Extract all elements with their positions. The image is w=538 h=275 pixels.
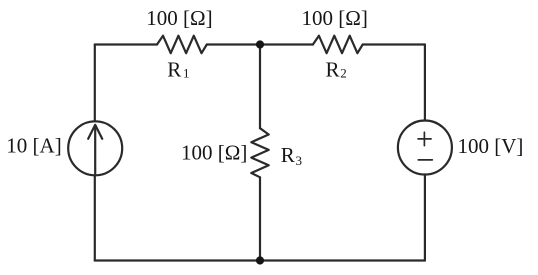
current source I1 arrow shaft <box>94 125 96 173</box>
wire left rail lower <box>94 175 96 260</box>
svg-text:10 [A]: 10 [A] <box>6 134 61 158</box>
svg-text:R: R <box>326 57 340 81</box>
current source I1 circle <box>68 121 122 175</box>
wire right rail lower <box>424 175 426 261</box>
voltage source V1 plus sign <box>418 138 431 140</box>
svg-text:2: 2 <box>340 66 347 81</box>
node junction bottom <box>256 256 264 264</box>
wire left rail upper <box>94 45 96 122</box>
node junction top <box>256 40 264 48</box>
svg-text:100 [Ω]: 100 [Ω] <box>302 6 368 30</box>
wire right rail upper <box>424 45 426 121</box>
svg-text:100 [Ω]: 100 [Ω] <box>146 6 212 30</box>
svg-text:100 [Ω]: 100 [Ω] <box>181 141 247 165</box>
wire top-middle segment <box>207 43 313 45</box>
current source I1 arrow head <box>88 125 102 139</box>
svg-text:3: 3 <box>296 153 303 168</box>
resistor R1 <box>157 36 207 54</box>
svg-text:R: R <box>167 57 181 81</box>
svg-text:1: 1 <box>183 65 190 80</box>
voltage source V1 circle <box>398 121 452 175</box>
resistor R2 <box>313 36 363 54</box>
wire middle rail lower <box>259 177 261 260</box>
wire top-left segment <box>95 43 157 45</box>
svg-text:R: R <box>281 143 295 167</box>
wire top-right segment <box>363 43 425 45</box>
wire middle rail upper <box>259 45 261 129</box>
svg-text:100 [V]: 100 [V] <box>458 134 524 158</box>
voltage source V1 minus sign <box>418 159 432 161</box>
resistor R3 <box>251 128 268 177</box>
wire bottom rail <box>95 259 425 261</box>
